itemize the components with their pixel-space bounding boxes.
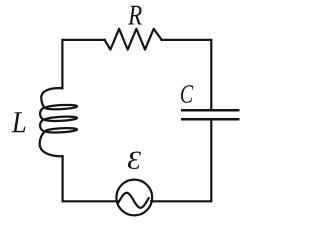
label R [128,6,142,25]
label script-E (emf) [128,151,141,169]
wire: resistor-left to top-left corner down to inductor top [62,40,104,88]
capacitor C top plate [181,109,240,112]
inductor L coil [40,88,77,156]
label L [12,112,26,132]
label C [181,85,193,102]
wire: AC source right to bottom-right corner up to capacitor bottom plate [151,119,211,201]
AC source sine wave [118,193,149,208]
wire: capacitor top plate up to top-right corner to resistor-right [162,40,212,110]
wire: inductor bottom to bottom-left corner to AC source left [63,156,118,201]
resistor R [105,29,162,50]
capacitor C bottom plate [181,118,240,121]
AC source circle [116,180,152,216]
